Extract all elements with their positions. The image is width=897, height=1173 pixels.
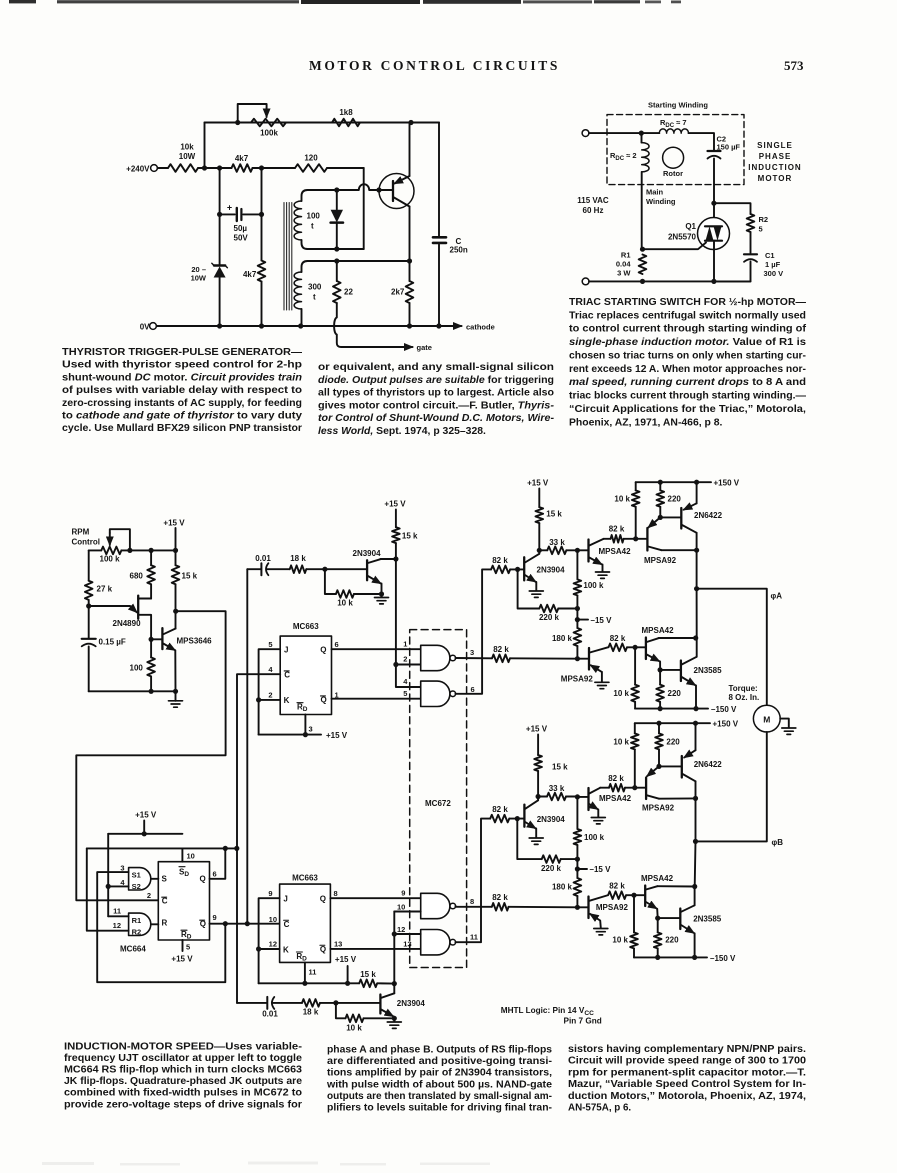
wire bottom rail <box>589 280 751 282</box>
svg-text:INDUCTION: INDUCTION <box>748 163 801 172</box>
resistor 10k A1 <box>635 482 637 490</box>
resistor 27k <box>85 581 93 600</box>
svg-text:0.04: 0.04 <box>616 260 631 269</box>
svg-text:680: 680 <box>130 572 144 581</box>
wire NAND4 output 11 join <box>455 907 481 942</box>
Q1 collector <box>394 198 410 207</box>
svg-text:K: K <box>283 945 289 954</box>
node phase A output <box>694 548 699 553</box>
wire MC663-1 J K to +15V <box>259 649 281 734</box>
svg-text:MC663: MC663 <box>292 874 318 883</box>
zener diode 20V 10W <box>214 264 225 266</box>
svg-text:Q: Q <box>320 945 326 954</box>
svg-text:to control current through sta: to control current through starting wind… <box>569 324 807 335</box>
svg-text:φA: φA <box>771 592 783 601</box>
svg-text:10k: 10k <box>180 143 194 152</box>
wire -150V rail phase B <box>634 956 707 958</box>
node 33k left <box>537 548 542 553</box>
transistor Q1 BFX29 <box>379 174 414 209</box>
transistor 2N3904 bottom diff <box>379 995 381 1014</box>
svg-text:gives motor control circuit.—F: gives motor control circuit.—F. Butler, … <box>318 400 555 411</box>
wire MC663-1 Q to NAND pin1 <box>332 648 421 650</box>
svg-text:82 k: 82 k <box>609 525 625 534</box>
svg-text:AN-575A, p 6.: AN-575A, p 6. <box>568 1103 631 1114</box>
svg-text:2k7: 2k7 <box>391 288 405 297</box>
resistor 33k phase A <box>539 549 547 551</box>
svg-text:C: C <box>284 920 290 929</box>
svg-text:1: 1 <box>403 639 407 648</box>
power +150V rail phase A <box>636 481 711 483</box>
resistor 220 B1 <box>658 723 660 733</box>
wire R2 to C1 <box>750 232 752 253</box>
torn black bar top edge <box>9 0 36 3</box>
node 2N3585 A base <box>658 667 663 672</box>
resistor 15k bottom diff <box>359 980 377 988</box>
svg-text:+15 V: +15 V <box>171 955 193 964</box>
node phiA <box>694 586 699 591</box>
svg-text:cathode: cathode <box>466 322 495 331</box>
node MPSA42 A2 base <box>633 645 638 650</box>
svg-text:2N3904: 2N3904 <box>353 549 382 558</box>
svg-text:573: 573 <box>784 58 804 73</box>
svg-text:10: 10 <box>397 902 405 911</box>
wire R2 branch <box>714 203 751 214</box>
svg-text:300: 300 <box>308 283 322 292</box>
svg-text:Q: Q <box>320 645 326 654</box>
pot wiper arrow <box>235 120 240 125</box>
ground MPSA42 B1 <box>591 817 605 819</box>
resistor 120 <box>295 164 327 172</box>
wire left branch <box>88 550 90 580</box>
svg-text:6: 6 <box>213 869 217 878</box>
svg-text:t: t <box>311 222 314 231</box>
resistor R2 5 <box>747 214 755 232</box>
svg-text:220: 220 <box>666 738 680 747</box>
node 33k right <box>575 548 580 553</box>
resistor 220k phase A <box>518 569 540 608</box>
wire motor ground <box>780 719 789 728</box>
transistor MPS3646 <box>161 628 163 649</box>
resistor 10k top diff <box>325 569 336 594</box>
svg-text:15 k: 15 k <box>360 970 376 979</box>
svg-text:–15 V: –15 V <box>590 865 612 874</box>
capacitor 0.15uF <box>88 606 90 638</box>
svg-text:Phoenix, AZ, 1971, AN-466, p 8: Phoenix, AZ, 1971, AN-466, p 8. <box>569 417 723 428</box>
wire NAND3 output 8 with 82k <box>455 905 491 908</box>
svg-text:JK flip-flops. Quadrature-phas: JK flip-flops. Quadrature-phased JK outp… <box>64 1076 303 1087</box>
ground oscillator <box>175 691 177 701</box>
wire MC663-1 Qbar to NAND pin5 <box>332 698 421 700</box>
transformer winding 100t <box>302 190 308 201</box>
svg-text:–150 V: –150 V <box>711 705 737 714</box>
capacitor C2 150uF <box>708 150 721 152</box>
wire MC664 Qbar pin9 <box>210 923 280 925</box>
svg-text:220: 220 <box>668 689 682 698</box>
svg-text:Torque:: Torque: <box>729 684 758 693</box>
wire Qbar down to S1 loop <box>97 872 225 982</box>
capacitor 0.01 top <box>247 568 260 570</box>
svg-text:Used with thyristor speed cont: Used with thyristor speed control for 2-… <box>62 360 302 371</box>
svg-text:10 k: 10 k <box>346 1024 362 1033</box>
transistor MPSA42 phase A lower <box>645 638 647 660</box>
svg-text:PHASE: PHASE <box>759 152 792 161</box>
resistor 15k oscillator <box>173 548 178 553</box>
wire collector bus to NAND pins 10 and 12 <box>393 912 395 984</box>
node MPSA92 A2 base <box>575 656 580 661</box>
svg-text:shunt-wound DC motor. Circuit: shunt-wound DC motor. Circuit provides t… <box>62 372 302 383</box>
svg-text:2N3904: 2N3904 <box>537 566 566 575</box>
resistor 180k phase A <box>576 620 578 628</box>
transistor MPSA42 phase A upper <box>587 540 589 562</box>
svg-text:2N5570: 2N5570 <box>668 233 697 242</box>
UJT 2N4890 <box>137 596 139 619</box>
node 2N3904A base <box>515 567 520 572</box>
node top rail emitter <box>408 120 413 125</box>
resistor 82k A1 <box>604 538 611 540</box>
svg-text:15 k: 15 k <box>182 572 198 581</box>
svg-text:2N6422: 2N6422 <box>694 760 723 769</box>
svg-text:33 k: 33 k <box>549 784 565 793</box>
transistor 2N3904 top diff <box>366 560 368 580</box>
ground top diff <box>381 594 383 597</box>
svg-text:Q: Q <box>200 875 206 884</box>
wire C2 down to triac <box>713 159 715 218</box>
svg-text:R2: R2 <box>759 215 769 224</box>
svg-text:11: 11 <box>470 932 478 941</box>
wire +15V to SD and S2 R1 <box>108 833 182 835</box>
ground MPSA92 B2 <box>594 928 608 930</box>
svg-text:18 k: 18 k <box>303 1008 319 1017</box>
node MPS3646 base <box>149 637 154 642</box>
svg-text:220: 220 <box>665 936 679 945</box>
resistor 10k B2 <box>633 895 635 932</box>
node 33k B right <box>575 794 580 799</box>
svg-text:3: 3 <box>309 725 313 734</box>
svg-text:Q: Q <box>320 895 326 904</box>
wire to top rail <box>204 123 206 169</box>
transistor MPSA92 phase A lower <box>588 648 590 670</box>
node 220k B right <box>575 857 580 862</box>
node A3 <box>259 165 264 170</box>
svg-text:MC672: MC672 <box>425 799 451 808</box>
wire winding to C2 <box>689 133 715 150</box>
resistor 18k top <box>290 565 307 573</box>
resistor 100 <box>150 639 152 657</box>
potentiometer 100k <box>251 119 286 127</box>
node phiB <box>693 839 698 844</box>
svg-text:2N3585: 2N3585 <box>693 914 722 923</box>
NAND gate 4 <box>421 930 450 955</box>
node MPSA42 B2 collector <box>692 884 697 889</box>
wire oscillator bottom rail <box>89 690 176 692</box>
svg-text:10 k: 10 k <box>337 599 353 608</box>
svg-text:33 k: 33 k <box>549 538 565 547</box>
svg-text:+150 V: +150 V <box>713 720 739 729</box>
svg-text:15 k: 15 k <box>552 763 568 772</box>
resistor 82k B1 <box>600 787 609 789</box>
pot wiper RPM <box>127 548 132 553</box>
node 2N3585 B base <box>655 916 660 921</box>
resistor 10k bottom diff <box>336 1003 346 1018</box>
inductor RDC=2 main winding <box>642 143 649 172</box>
transistor 2N6422 phase A <box>680 508 682 529</box>
wire C1 to rail <box>714 262 751 282</box>
ground motor <box>782 727 796 729</box>
svg-text:+15 V: +15 V <box>526 725 548 734</box>
svg-text:82 k: 82 k <box>492 805 508 814</box>
wire secondary rail <box>308 260 410 262</box>
wire zener branch <box>219 168 221 265</box>
svg-text:100: 100 <box>307 212 321 221</box>
svg-text:THYRISTOR TRIGGER-PULSE GENE: THYRISTOR TRIGGER-PULSE GENERATOR— <box>62 347 303 358</box>
svg-text:MPSA42: MPSA42 <box>599 794 632 803</box>
svg-text:Starting Winding: Starting Winding <box>648 101 708 110</box>
svg-text:82 k: 82 k <box>608 774 624 783</box>
wire 100t loop top with hop to base <box>308 184 393 190</box>
node clock output <box>173 609 178 614</box>
node collector rail <box>407 258 412 263</box>
svg-text:plifiers to levels suitable fo: plifiers to levels suitable for driving … <box>327 1103 552 1114</box>
svg-text:2N3585: 2N3585 <box>694 666 723 675</box>
svg-text:MPSA92: MPSA92 <box>561 675 594 684</box>
rotor circle <box>663 147 684 168</box>
svg-text:82 k: 82 k <box>492 893 508 902</box>
svg-text:115 VAC: 115 VAC <box>577 196 609 205</box>
faint next-page remnant bottom edge <box>42 1162 490 1166</box>
wire Q bus to C1 and bottom 0.01 <box>236 674 238 1003</box>
IC MC663 lower JK flip-flop <box>280 884 331 962</box>
svg-text:tions amplified by pair of 2N3: tions amplified by pair of 2N3904 transi… <box>327 1068 552 1079</box>
power -15V phase B <box>575 866 580 871</box>
resistor 82k B2 <box>608 891 626 899</box>
svg-text:Q: Q <box>321 696 327 705</box>
svg-text:50V: 50V <box>234 234 249 243</box>
svg-text:+15 V: +15 V <box>135 811 157 820</box>
svg-text:S1: S1 <box>132 870 141 879</box>
capacitor 50u 50V <box>217 212 222 217</box>
svg-text:MPSA92: MPSA92 <box>596 903 629 912</box>
triac Q1 2N5570 <box>698 218 730 250</box>
svg-text:9: 9 <box>213 913 217 922</box>
transistor MPSA42 phase B lower <box>644 886 646 907</box>
svg-text:C: C <box>162 897 168 906</box>
svg-text:3: 3 <box>470 648 474 657</box>
svg-text:1k8: 1k8 <box>339 108 353 117</box>
svg-text:+15 V: +15 V <box>527 479 549 488</box>
node MPSA42 B2 base <box>631 893 636 898</box>
svg-text:220: 220 <box>668 495 682 504</box>
svg-text:R: R <box>162 919 168 928</box>
svg-text:2N3904: 2N3904 <box>397 999 426 1008</box>
svg-text:100: 100 <box>130 664 144 673</box>
node 2N3904 base bottom <box>333 1000 338 1005</box>
wire collector bus to NAND pins 2 and 4 <box>395 559 397 665</box>
wire top 0.01 to Qbar <box>246 569 248 924</box>
svg-text:+15 V: +15 V <box>335 955 357 964</box>
pin10 SD stub <box>181 848 183 861</box>
svg-text:+240V: +240V <box>126 165 150 174</box>
wire 22 to gate with hop over 0V rail <box>334 303 406 347</box>
terminal +240V <box>151 165 158 172</box>
svg-text:300 V: 300 V <box>764 269 784 278</box>
resistor 220 A2 <box>659 670 661 685</box>
ground 2N3904 phase B <box>529 837 543 839</box>
svg-text:MOTOR: MOTOR <box>758 174 793 183</box>
wire NAND1 output 3 with 82k <box>455 657 492 659</box>
transistor MPSA92 phase B lower <box>587 897 589 919</box>
svg-text:8: 8 <box>470 897 474 906</box>
svg-text:5: 5 <box>186 943 190 952</box>
wire wired-OR bus up to 82k input <box>482 569 491 658</box>
dashed IC MC672 <box>410 630 467 968</box>
transformer core <box>283 203 285 311</box>
node A2 <box>217 165 222 170</box>
svg-text:MPSA42: MPSA42 <box>642 626 675 635</box>
node 10k B1 bottom <box>632 785 637 790</box>
svg-text:Main: Main <box>646 188 664 197</box>
wire bottom +15V rail MC663-2 <box>259 982 360 984</box>
terminal 0V <box>150 323 157 330</box>
transistor 2N3904 phase A <box>523 557 525 580</box>
node main winding top <box>639 131 644 136</box>
svg-text:180 k: 180 k <box>552 883 573 892</box>
svg-text:12: 12 <box>269 939 277 948</box>
svg-text:MC664 RS flip-flop which in tu: MC664 RS flip-flop which in turn clocks … <box>64 1065 303 1076</box>
svg-text:chosen so triac turns on only: chosen so triac turns on only when start… <box>569 350 807 361</box>
svg-text:15 k: 15 k <box>546 510 562 519</box>
svg-text:phase A and phase B. Outputs o: phase A and phase B. Outputs of RS flip-… <box>327 1045 553 1056</box>
svg-text:10W: 10W <box>179 152 196 161</box>
svg-text:Pin 7 Gnd: Pin 7 Gnd <box>564 1017 602 1026</box>
wire output node down phase A <box>696 589 698 638</box>
capacitor C1 1uF 300V <box>744 253 757 255</box>
svg-text:82 k: 82 k <box>493 645 509 654</box>
svg-text:with pulse width of about 500: with pulse width of about 500 µs. NAND-g… <box>326 1079 553 1090</box>
svg-text:frequency UJT oscillator at up: frequency UJT oscillator at upper left t… <box>64 1053 303 1064</box>
svg-text:12: 12 <box>113 921 121 930</box>
resistor 18k bottom <box>302 999 320 1007</box>
svg-text:“Circuit Applications for the: “Circuit Applications for the Triac,” Mo… <box>569 404 806 415</box>
0V rail junction nodes <box>217 323 222 328</box>
node MPSA42 A2 collector <box>693 635 698 640</box>
svg-text:MC663: MC663 <box>293 622 319 631</box>
NAND gate 2 <box>421 681 450 706</box>
svg-text:220 k: 220 k <box>541 864 562 873</box>
svg-text:MC664: MC664 <box>120 945 146 954</box>
wire top rail <box>205 122 440 124</box>
wire MC664 Q pin6 <box>210 848 226 878</box>
ground 2N3904 phase A <box>529 590 543 592</box>
svg-text:all types of thyristors up to: all types of thyristors up to largest. A… <box>318 388 554 399</box>
transistor 2N3585 phase B <box>679 909 681 930</box>
svg-text:J: J <box>283 895 287 904</box>
svg-text:Circuit will provide speed ran: Circuit will provide speed range of 300 … <box>568 1056 807 1067</box>
svg-text:2: 2 <box>403 655 407 664</box>
capacitor 0.01 bottom <box>237 1002 266 1004</box>
resistor 2k7 <box>409 261 411 281</box>
svg-text:8 Oz. In.: 8 Oz. In. <box>729 693 760 702</box>
wire -150V rail phase A <box>635 708 708 710</box>
svg-text:50µ: 50µ <box>234 224 248 233</box>
svg-text:5: 5 <box>759 225 763 234</box>
node Qbar taps <box>223 921 228 926</box>
svg-text:Q: Q <box>200 920 206 929</box>
svg-text:triac blocks current through s: triac blocks current through starting wi… <box>569 391 807 402</box>
svg-text:1 µF: 1 µF <box>765 260 781 269</box>
terminal line input top <box>582 130 589 137</box>
wire 0V rail to cathode <box>157 325 456 327</box>
node base <box>376 187 381 192</box>
svg-text:MOTOR CONTROL CIRCUITS: MOTOR CONTROL CIRCUITS <box>309 58 562 73</box>
ground bottom diff <box>393 1018 395 1021</box>
svg-text:18 k: 18 k <box>290 554 306 563</box>
resistor 82k A2 <box>609 644 627 652</box>
svg-text:11: 11 <box>113 907 121 916</box>
node oscillator ground rail <box>149 689 154 694</box>
svg-text:220 k: 220 k <box>539 613 560 622</box>
NAND gate 1 <box>421 645 450 670</box>
wire UJT emitter <box>89 605 130 607</box>
resistor 100k phase A <box>576 550 578 579</box>
dashed outline single phase induction motor <box>607 115 744 185</box>
svg-text:+15 V: +15 V <box>326 731 348 740</box>
transistor MPSA92 phase B upper <box>645 778 647 800</box>
node 2N3904 collector top <box>393 556 398 561</box>
diode D1 <box>334 187 339 192</box>
svg-text:0V: 0V <box>140 323 150 332</box>
node MPSA92 B1 collector <box>693 796 698 801</box>
svg-text:zero-crossing instants of AC s: zero-crossing instants of AC supply, for… <box>62 398 302 409</box>
svg-text:provide zero-voltage steps of: provide zero-voltage steps of drive sign… <box>64 1099 302 1110</box>
svg-text:13: 13 <box>403 939 411 948</box>
svg-text:3 W: 3 W <box>617 269 631 278</box>
svg-text:to cathode and gate of thyrist: to cathode and gate of thyristor to vary… <box>62 411 302 422</box>
svg-text:sistors having complementary N: sistors having complementary NPN/PNP pai… <box>568 1044 806 1055</box>
svg-text:15 k: 15 k <box>402 532 418 541</box>
svg-text:8: 8 <box>334 889 338 898</box>
node S2 input <box>106 884 111 889</box>
node emitter junction <box>86 603 91 608</box>
wire triac gate <box>640 247 645 252</box>
svg-text:120: 120 <box>304 154 318 163</box>
svg-text:5: 5 <box>403 689 407 698</box>
node 2N3904B base <box>515 816 520 821</box>
svg-text:5: 5 <box>268 640 272 649</box>
svg-text:+150 V: +150 V <box>714 479 740 488</box>
wire MC663-2 J K <box>259 898 280 983</box>
svg-text:–150 V: –150 V <box>710 954 736 963</box>
svg-text:250n: 250n <box>450 246 468 255</box>
power -15V phase A <box>575 617 580 622</box>
svg-text:82 k: 82 k <box>609 882 625 891</box>
svg-text:–15 V: –15 V <box>591 616 613 625</box>
svg-text:duction Motors,” Motorola, Pho: duction Motors,” Motorola, Phoenix, AZ, … <box>568 1091 806 1102</box>
resistor 220 A1 <box>659 482 661 490</box>
svg-text:MPS3646: MPS3646 <box>177 637 213 646</box>
resistor 220k phase B <box>517 819 541 860</box>
ground MPSA92 A2 <box>595 681 609 683</box>
IC MC663 upper JK flip-flop <box>280 636 331 714</box>
wire wired-OR bus B up <box>481 819 490 907</box>
svg-text:60 Hz: 60 Hz <box>583 206 604 215</box>
svg-text:outputs are then translated by: outputs are then translated by small-sig… <box>327 1091 552 1102</box>
svg-text:10 k: 10 k <box>612 936 628 945</box>
pin11 stub MC663-2 <box>304 962 306 983</box>
transformer winding 300t <box>294 272 301 309</box>
svg-text:S2: S2 <box>132 882 141 891</box>
capacitor C 250n <box>438 123 440 237</box>
svg-text:Triac replaces centrifugal swi: Triac replaces centrifugal switch normal… <box>569 310 806 321</box>
